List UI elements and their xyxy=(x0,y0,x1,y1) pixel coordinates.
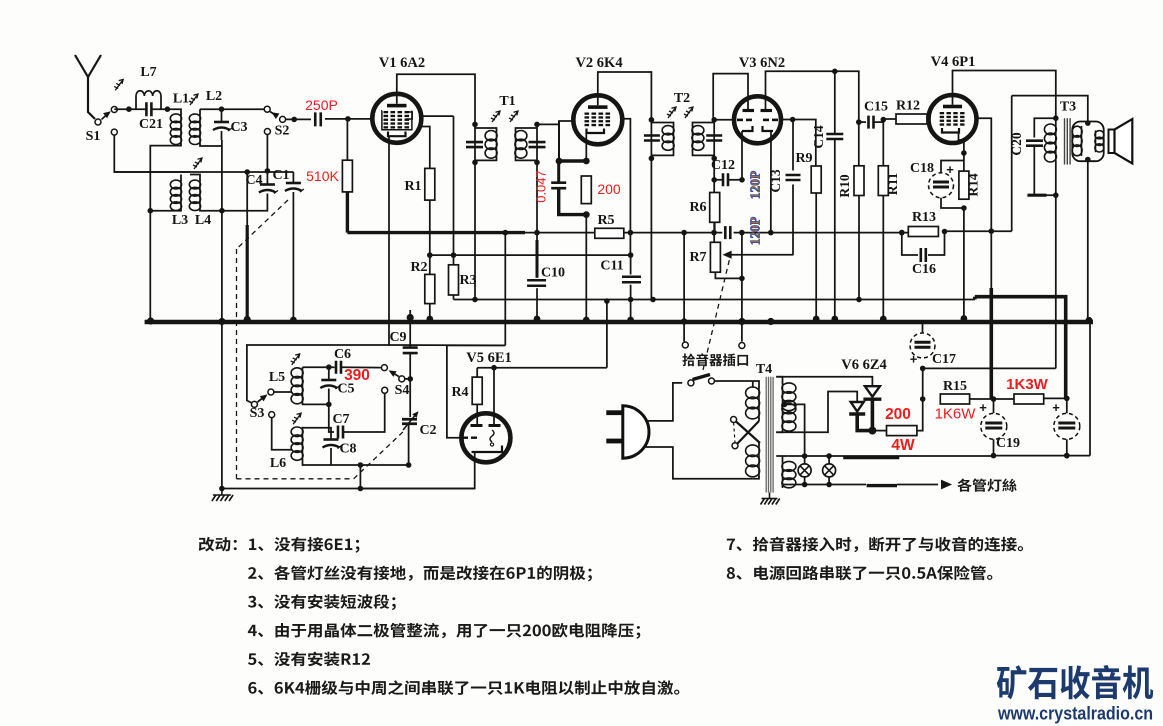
T1 primary cap xyxy=(474,124,476,162)
V2 cathode lead xyxy=(585,133,587,161)
tube V3 6N2 envelope xyxy=(734,96,781,143)
V1 cathode lead to bus and S3 net xyxy=(247,136,389,403)
resistor R9 and feed xyxy=(793,120,816,167)
R10 bottom to heater line xyxy=(858,196,860,300)
riser x=1011.7 to T3 secondary rail xyxy=(1011,96,1013,232)
switch S1 xyxy=(95,119,101,125)
T1 secondary coil xyxy=(516,128,538,131)
svg-text:R3: R3 xyxy=(459,273,476,288)
V5 cathode lead to ground line xyxy=(360,452,474,489)
speaker voice coil xyxy=(1095,130,1097,152)
resistor R12 xyxy=(883,118,896,120)
hash L4 xyxy=(193,158,202,169)
svg-text:L2: L2 xyxy=(206,89,222,104)
V1 cathode xyxy=(388,132,406,137)
capacitor C13 xyxy=(792,120,794,171)
L5 bottom rail xyxy=(303,403,329,404)
wire S1 lower throw to C4 row xyxy=(114,135,190,172)
resistor R2 xyxy=(425,274,435,303)
ground symbol main xyxy=(221,322,223,489)
svg-text:120P: 120P xyxy=(748,217,763,246)
svg-text:V2 6K4: V2 6K4 xyxy=(575,55,622,71)
dashed linkage R7 to pickup switch xyxy=(703,253,731,370)
svg-text:C8: C8 xyxy=(339,442,356,457)
L5 top rail and C6 xyxy=(303,366,335,368)
capacitor C14 xyxy=(834,71,836,133)
svg-text:V1 6A2: V1 6A2 xyxy=(379,55,425,71)
watermark logo xyxy=(997,665,1153,699)
transformer T4 primary xyxy=(752,381,754,388)
wire L2 bottom column to ground bus xyxy=(200,144,222,146)
svg-text:C9: C9 xyxy=(389,330,406,345)
capacitor C7 xyxy=(338,426,343,439)
hash L7 xyxy=(114,79,123,90)
coil L7 xyxy=(135,96,137,109)
svg-text:0.047: 0.047 xyxy=(534,170,549,203)
pilot lamp 1 xyxy=(804,456,806,464)
V2 0.047 branch (hand drawn) xyxy=(558,121,560,161)
T3 primary coil xyxy=(1055,118,1057,125)
wire T1 sec top to V2 grid xyxy=(537,121,571,124)
line y=255 R1R2 junction row xyxy=(430,254,631,256)
svg-text:4W: 4W xyxy=(891,437,915,454)
svg-text:V6 6Z4: V6 6Z4 xyxy=(841,357,887,373)
V1 plate bar xyxy=(387,104,407,108)
potentiometer R7 xyxy=(710,242,720,272)
R7 wiper arrow from C13 xyxy=(726,254,794,256)
T3 primary top rail xyxy=(1053,115,1059,121)
svg-text:V3 6N2: V3 6N2 xyxy=(739,55,785,71)
V2 cathode xyxy=(587,129,605,134)
V4 plate bar xyxy=(943,105,962,109)
svg-text:C13: C13 xyxy=(768,169,783,192)
L6 top rail to C8 xyxy=(303,428,332,439)
resistor R10 xyxy=(858,122,860,166)
svg-text:C3: C3 xyxy=(230,120,247,135)
T3 core xyxy=(1065,118,1071,164)
svg-text:R2: R2 xyxy=(410,260,427,275)
resistor 1K3W xyxy=(1014,394,1044,404)
svg-text:www.crystalradio.cn: www.crystalradio.cn xyxy=(997,704,1153,724)
V3 grid dashes xyxy=(737,119,778,122)
rectifier diode D1 xyxy=(851,402,864,412)
V1 plate lead to B+ rail xyxy=(397,74,475,124)
svg-text:L4: L4 xyxy=(195,213,211,228)
svg-text:L1: L1 xyxy=(173,92,189,107)
svg-text:R12: R12 xyxy=(896,99,920,114)
tube V2 6K4 envelope xyxy=(573,95,622,144)
svg-text:R13: R13 xyxy=(912,210,936,225)
V1 grid rows xyxy=(384,111,410,113)
V4 plate lead to T3 xyxy=(953,71,1056,119)
T3 secondary bottom to bus xyxy=(1087,160,1089,323)
V3 plate 2 xyxy=(761,109,773,112)
trimmer C1 (tuning gang) xyxy=(292,172,294,182)
T4 core xyxy=(766,377,773,493)
svg-text:R11: R11 xyxy=(885,173,900,196)
wire L2 top to S2 xyxy=(200,108,264,110)
V2 screen stub right xyxy=(620,119,630,255)
R14 bottom to bus xyxy=(963,208,965,322)
svg-text:L3: L3 xyxy=(172,213,188,228)
thick mod line heater to 6P1 cathode xyxy=(975,297,1066,399)
svg-text:C19: C19 xyxy=(996,436,1020,451)
column T2 primary bottom riser xyxy=(650,158,652,299)
wire R12 to V4 grid xyxy=(927,118,929,120)
pickup jack circles xyxy=(682,342,688,348)
svg-text:1K6W: 1K6W xyxy=(935,406,977,423)
heater supply row xyxy=(789,455,994,457)
capacitor C21 xyxy=(146,102,151,116)
variable capacitor C2 xyxy=(409,379,411,417)
coil L4 xyxy=(199,180,201,211)
capacitor C15 xyxy=(856,119,862,125)
R9 bottom to bus xyxy=(815,193,817,322)
V5 cathode xyxy=(472,446,503,453)
label heater string xyxy=(957,478,1016,491)
wire C17 node to T3 primary bottom xyxy=(923,367,1056,369)
svg-text:C18: C18 xyxy=(910,161,934,176)
column T1 area to V5 grid net xyxy=(504,233,506,346)
resistor R5 xyxy=(595,228,624,238)
dashed gang linkage C1-C2 box xyxy=(237,200,289,249)
wire L5 tank to C7 xyxy=(329,404,334,432)
svg-text:L6: L6 xyxy=(270,456,286,471)
wire T2 sec top to V3 grid xyxy=(714,119,735,121)
V2 plate bar xyxy=(588,105,608,109)
wire 200 4W to C17 node xyxy=(917,366,923,430)
drop to ground line xyxy=(359,465,361,489)
tube V1 6A2 envelope xyxy=(372,94,421,143)
svg-text:200: 200 xyxy=(597,181,621,197)
wire R6 to line xyxy=(714,222,716,232)
wire switch to T4 xyxy=(715,380,753,382)
svg-text:R14: R14 xyxy=(966,173,981,196)
T3 secondary outline xyxy=(1072,122,1103,162)
svg-text:V5 6E1: V5 6E1 xyxy=(466,350,512,366)
wire R3 bottom to heater line xyxy=(453,295,455,300)
wire C21 to L1 xyxy=(152,108,178,110)
T2 primary coil xyxy=(651,123,673,127)
L6 bottom rail xyxy=(303,460,409,466)
mains switch xyxy=(688,380,694,386)
svg-text:200: 200 xyxy=(885,406,911,423)
svg-text:R9: R9 xyxy=(795,151,812,166)
tube V4 6P1 envelope xyxy=(929,95,977,143)
svg-text:C6: C6 xyxy=(334,347,351,362)
T1 primary coil xyxy=(475,128,497,131)
electrolytic C18 xyxy=(929,173,954,198)
V5 top pins xyxy=(493,368,495,425)
V1 grid stub right to R3 column xyxy=(420,115,454,117)
svg-text:+: + xyxy=(946,162,954,177)
svg-text:C14: C14 xyxy=(811,125,826,148)
column R5 left to bus xyxy=(585,233,587,322)
svg-text:S4: S4 xyxy=(395,383,410,398)
svg-text:510K: 510K xyxy=(306,168,339,184)
AVC line continues right xyxy=(624,232,723,234)
T4 HV secondary upper xyxy=(776,377,782,384)
coil L6 xyxy=(302,427,304,461)
speaker xyxy=(1109,130,1115,154)
wire to S3 lower throw xyxy=(272,418,292,450)
wire R2 bottom to bus xyxy=(429,304,431,322)
svg-text:C5: C5 xyxy=(337,382,354,397)
trimmer C5 xyxy=(328,367,330,379)
V1 grid box xyxy=(382,111,412,130)
ground line lower-left xyxy=(222,488,475,490)
trimmer C8 xyxy=(324,438,339,441)
heater line y=299.5 xyxy=(454,299,975,301)
T3 secondary coil xyxy=(1081,126,1083,156)
V1 screen stub to R1 xyxy=(418,127,430,169)
electrolytic C19 xyxy=(981,413,1007,439)
svg-text:T1: T1 xyxy=(499,94,515,109)
capacitor C20 xyxy=(1034,118,1056,137)
label pickup jack xyxy=(682,353,748,366)
HV center tap xyxy=(783,404,805,456)
V3 cathode leads xyxy=(741,131,743,180)
wire 1K3W to right cap xyxy=(1044,397,1067,399)
resistor 200 cathode xyxy=(581,176,591,204)
svg-text:C15: C15 xyxy=(864,100,888,115)
svg-text:250P: 250P xyxy=(305,97,338,113)
HV leads to rectifier xyxy=(776,377,872,386)
V4 cathode lead xyxy=(959,133,964,172)
svg-text:R15: R15 xyxy=(943,379,967,394)
V2 grid rows xyxy=(585,113,611,115)
R7 bottom to column xyxy=(715,272,742,278)
svg-text:R7: R7 xyxy=(689,250,706,265)
wire S2 lower throw down to C4 xyxy=(266,135,268,171)
V5 supply rail xyxy=(447,345,505,437)
hash L6 xyxy=(292,413,301,424)
resistor R3 xyxy=(449,265,459,295)
svg-text:C10: C10 xyxy=(541,266,565,281)
notes text block left xyxy=(199,537,360,553)
wire L1 bottom down xyxy=(150,144,181,320)
svg-text:+: + xyxy=(910,352,918,367)
resistor R11 xyxy=(881,117,887,123)
svg-text:R4: R4 xyxy=(451,385,468,400)
R11 bottom to bus xyxy=(882,196,884,323)
svg-text:C21: C21 xyxy=(139,117,163,132)
tube V5 6E1 envelope xyxy=(461,413,510,462)
node top wire xyxy=(114,108,146,110)
svg-text:S1: S1 xyxy=(86,129,101,144)
V5 grid dashes xyxy=(462,437,477,439)
coil L1 xyxy=(180,114,182,145)
svg-text:1K3W: 1K3W xyxy=(1006,376,1049,393)
svg-text:+: + xyxy=(979,400,987,415)
resistor R13 xyxy=(899,230,905,236)
pilot lamp 2 xyxy=(828,456,830,464)
capacitor C9 xyxy=(409,310,411,348)
column x=684 pickup xyxy=(683,233,685,342)
capacitor 120P lower (in line) xyxy=(725,226,730,239)
svg-text:R5: R5 xyxy=(597,213,614,228)
hash L5 xyxy=(291,354,300,365)
svg-text:C17: C17 xyxy=(932,352,956,367)
electrolytic C17 xyxy=(910,333,935,358)
V5 squiggle xyxy=(490,430,494,442)
V3 cathode hooks xyxy=(742,126,773,131)
capacitor C11 xyxy=(622,277,641,283)
wire cathode resistor to R5 line xyxy=(585,215,587,233)
svg-text:R1: R1 xyxy=(404,179,421,194)
resistor R6 xyxy=(710,193,720,223)
switch S3 xyxy=(251,401,257,407)
wire R1 to R2, junction xyxy=(429,200,431,274)
svg-text:120P: 120P xyxy=(748,171,763,200)
svg-text:C2: C2 xyxy=(419,423,436,438)
phase X marks xyxy=(731,417,737,423)
electrolytic right of C19 xyxy=(1054,413,1080,439)
capacitor C10 xyxy=(527,280,546,286)
svg-text:+: + xyxy=(1052,400,1060,415)
svg-text:C20: C20 xyxy=(1009,132,1024,155)
heater return row with arrow xyxy=(789,484,866,486)
trimmer C3 xyxy=(221,109,223,121)
svg-text:C11: C11 xyxy=(600,259,623,274)
T2 secondary coil xyxy=(693,123,715,127)
trimmer C4 xyxy=(266,171,268,184)
coil L2 xyxy=(199,114,201,145)
column R3 xyxy=(453,116,455,265)
svg-text:T3: T3 xyxy=(1060,100,1076,115)
antenna xyxy=(75,55,95,119)
svg-text:C1: C1 xyxy=(272,168,289,183)
resistor 200 4W xyxy=(872,430,886,432)
column V5 supply riser xyxy=(606,300,608,368)
V4 cathode xyxy=(942,128,959,133)
capacitor C16 xyxy=(902,233,918,255)
hash L2 xyxy=(189,94,198,105)
svg-text:C16: C16 xyxy=(912,262,936,277)
T3 rail to B+ riser xyxy=(1012,96,1088,124)
wire S2 common to V1 grid xyxy=(286,118,311,120)
V4 grid rows xyxy=(940,112,965,114)
wire R15 to C19 xyxy=(970,398,1014,400)
V4 screen column thick mod to C19 node xyxy=(990,231,992,288)
resistor R14 xyxy=(959,171,969,199)
svg-text:V4 6P1: V4 6P1 xyxy=(931,54,976,70)
T1 primary bottom column to heater line xyxy=(474,162,476,299)
AVC line y=232.6 (thick hand-drawn left part) xyxy=(347,231,525,234)
capacitor 250P xyxy=(315,112,321,126)
V5 plate rail xyxy=(477,367,607,369)
ground bus xyxy=(145,320,1093,324)
T4 core ground xyxy=(761,493,780,505)
wire R13 to T3 B+ riser xyxy=(945,230,1012,232)
svg-text:C7: C7 xyxy=(332,412,349,427)
svg-text:L7: L7 xyxy=(140,65,156,80)
switch S4 xyxy=(381,365,387,371)
T4 heater winding xyxy=(776,455,788,457)
column C12/R6/R7 xyxy=(713,158,715,242)
switch S2 xyxy=(264,106,270,112)
svg-text:S2: S2 xyxy=(275,124,290,139)
column x=247 to bus xyxy=(246,172,248,225)
T1 secondary cap xyxy=(536,124,538,162)
coil L5 xyxy=(302,368,304,404)
notes text block right xyxy=(727,537,1023,552)
T3 primary bottom column down xyxy=(1055,195,1057,368)
resistor R15 xyxy=(940,394,969,404)
svg-text:L5: L5 xyxy=(269,370,285,385)
wire S1-row to trimmers xyxy=(114,171,293,173)
row to bus right end xyxy=(1089,322,1091,456)
capacitor 0.047 xyxy=(557,161,560,183)
capacitor C12 xyxy=(714,179,722,181)
resistor R1 xyxy=(425,168,435,200)
V3 grid right stub xyxy=(780,119,793,121)
plug wires xyxy=(645,383,682,421)
T2 primary cap xyxy=(650,120,652,159)
svg-text:T4: T4 xyxy=(756,362,772,377)
V4 screen stub xyxy=(975,118,991,231)
svg-text:R6: R6 xyxy=(689,200,706,215)
T4 HV secondary lower xyxy=(782,403,784,431)
coil L3 xyxy=(180,180,182,211)
svg-text:C12: C12 xyxy=(711,158,735,173)
column x=741.9 to bus and pickup jack xyxy=(741,233,743,342)
V2 plate lead to T2 xyxy=(598,72,652,120)
wire 250P to V1 xyxy=(325,118,370,120)
svg-text:S3: S3 xyxy=(250,406,265,421)
V3 plate 1 xyxy=(743,109,755,112)
svg-text:R10: R10 xyxy=(837,174,852,197)
svg-text:T2: T2 xyxy=(674,91,690,106)
column C10: T1 sec bottom to bus xyxy=(536,162,538,240)
mains plug xyxy=(606,410,623,415)
resistor R4 xyxy=(476,368,478,377)
resistor 510K xyxy=(346,119,348,160)
T2 secondary cap xyxy=(713,120,715,159)
